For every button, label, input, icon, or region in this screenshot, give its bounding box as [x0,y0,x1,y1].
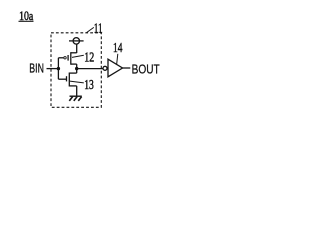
wire: buffer output [122,67,130,69]
buffer 14 (triangle with input bubble) [103,59,123,77]
transistor 13 (NMOS) [58,69,76,87]
power supply terminal (circle with bar) [73,38,79,44]
transistor 12 (PMOS) [58,52,76,68]
wire: inverter output to buffer [77,68,103,70]
leader line to label 14 [117,54,118,65]
svg-text:12: 12 [84,49,94,64]
leader line to label 13 [70,81,84,83]
svg-text:11: 11 [94,20,103,35]
wire: input gate line (vertical) [57,58,59,79]
dashed box 11 (inverter block outline) [51,33,101,108]
svg-text:BOUT: BOUT [132,63,160,77]
ground symbol [69,96,82,101]
svg-text:14: 14 [113,40,123,55]
leader line to label 12 [72,55,84,57]
node: input junction dot [57,67,60,70]
wire BIN input [47,68,59,70]
wire: power terminal to PMOS source [76,44,78,53]
svg-text:13: 13 [84,77,94,92]
node: output junction dot [75,67,78,70]
leader line to label 11 [87,27,94,32]
wire: NMOS source to ground [76,86,78,96]
svg-text:BIN: BIN [29,62,44,76]
